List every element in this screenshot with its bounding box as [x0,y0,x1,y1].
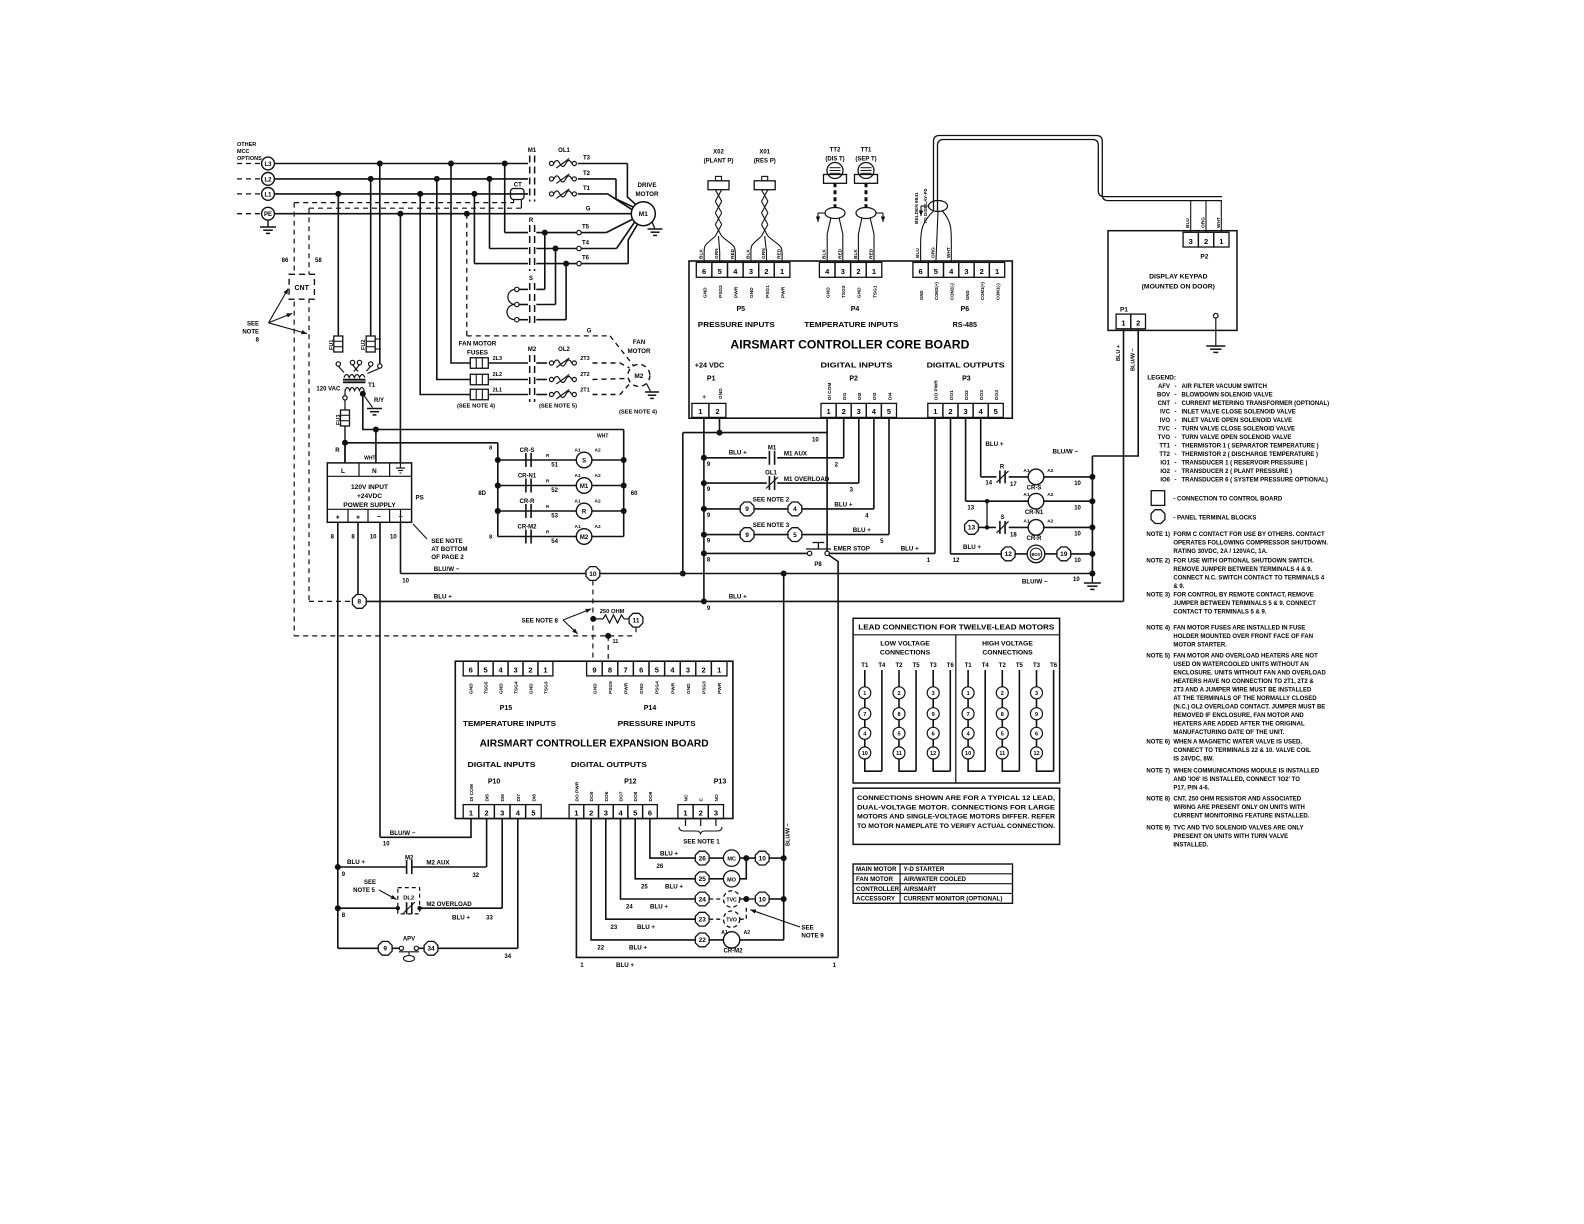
svg-text:25: 25 [699,876,707,883]
svg-text:NOTE 5: NOTE 5 [353,888,375,894]
svg-text:RATING 30VDC, 2A / 120VAC, 1A.: RATING 30VDC, 2A / 120VAC, 1A. [1173,549,1268,555]
svg-text:10: 10 [383,842,390,848]
svg-text:T1: T1 [965,663,973,669]
wire L2 bus [274,178,528,180]
svg-text:R: R [335,448,340,454]
svg-text:DO3: DO3 [979,390,985,400]
svg-text:G: G [586,206,591,212]
svg-text:RED: RED [730,248,736,259]
svg-text:5: 5 [531,808,535,817]
rung OL1 M1 OVERLOAD [701,480,707,486]
rung emer stop [701,550,707,556]
keypad wires from cable [1190,201,1192,233]
fuse FU3 [344,400,346,410]
svg-text:TT1: TT1 [1159,444,1170,450]
wire 11 dashed to P14-8 [635,627,637,636]
svg-text:OTHER: OTHER [237,142,256,148]
svg-text:10: 10 [390,535,397,541]
connector P2 (keypad) [1183,232,1198,247]
svg-text:T4: T4 [582,241,590,247]
svg-text:A2: A2 [1047,492,1053,498]
svg-text:PSG5: PSG5 [608,681,614,694]
svg-text:M1 OVERLOAD: M1 OVERLOAD [784,476,830,483]
svg-text:T6: T6 [947,663,955,669]
fuse FU2 [370,179,372,336]
svg-text:FAN MOTOR FUSES ARE INSTALLED: FAN MOTOR FUSES ARE INSTALLED IN FUSE [1173,626,1305,632]
svg-text:P6: P6 [961,306,970,313]
svg-text:10: 10 [1073,577,1080,583]
svg-text:GND: GND [639,683,645,694]
svg-text:BLU +: BLU + [616,962,634,969]
svg-text:M1: M1 [639,211,648,218]
svg-text:A1: A1 [575,524,581,530]
svg-text:1: 1 [574,808,578,817]
wire L3 to transformer [379,164,381,364]
wire T4 [490,248,529,250]
svg-text:2: 2 [715,407,719,416]
svg-text:THERMISTOR 2 ( DISCHARGE TEMPE: THERMISTOR 2 ( DISCHARGE TEMPERATURE ) [1182,452,1318,458]
svg-text:OL1: OL1 [765,471,777,477]
cable shield ellipse [929,201,948,212]
svg-text:Y-D STARTER: Y-D STARTER [904,866,945,873]
svg-text:DI7: DI7 [516,794,522,802]
wire 58 (CT to CNT) [309,207,521,209]
svg-text:CONNECTIONS: CONNECTIONS [880,650,931,657]
svg-text:DO7: DO7 [619,791,625,801]
svg-text:(SEE NOTE 5): (SEE NOTE 5) [539,404,577,410]
svg-text:CONNECTIONS: CONNECTIONS [982,650,1033,657]
wire BLU/W- rail [400,509,402,522]
rung M2 AUX [335,864,341,870]
svg-text:AIRSMART CONTROLLER CORE BO: AIRSMART CONTROLLER CORE BOARD [730,338,969,352]
svg-text:GRN: GRN [714,248,720,259]
svg-text:5: 5 [897,732,900,738]
svg-text:T3: T3 [1033,663,1041,669]
svg-text:2L2: 2L2 [493,372,502,378]
svg-text:5: 5 [793,532,797,539]
svg-text:3: 3 [857,407,861,416]
svg-text:WHEN A MAGNETIC WATER VALVE IS: WHEN A MAGNETIC WATER VALVE IS USED, [1173,740,1302,746]
svg-text:CURRENT METERING TRANSFORMER (: CURRENT METERING TRANSFORMER (OPTIONAL) [1182,401,1330,407]
svg-text:FAN MOTOR AND OVERLOAD HEATERS: FAN MOTOR AND OVERLOAD HEATERS ARE NOT [1173,654,1318,660]
svg-text:1: 1 [872,267,876,276]
svg-text:DIGITAL INPUTS: DIGITAL INPUTS [821,361,893,370]
svg-text:(N.C.) OL2 OVERLOAD CONTACT. J: (N.C.) OL2 OVERLOAD CONTACT. JUMPER MUST… [1173,705,1325,711]
svg-text:REMOVED IF ENCLOSURE, FAN MOTO: REMOVED IF ENCLOSURE, FAN MOTOR AND [1173,713,1304,719]
svg-text:GND: GND [826,287,832,298]
junction dots on phase lines [377,161,383,167]
svg-text:BLU +: BLU + [963,544,981,551]
svg-text:23: 23 [611,925,618,931]
svg-text:GND: GND [857,287,863,298]
svg-text:MOTOR STARTER.: MOTOR STARTER. [1173,643,1227,649]
taps to R contactor [504,164,506,233]
svg-text:1: 1 [717,666,721,675]
svg-text:PSG1: PSG1 [765,285,771,298]
display keypad box [1108,231,1237,331]
svg-text:P5: P5 [737,306,746,313]
svg-text:WHT: WHT [946,247,952,258]
feeders to fan fuses [451,164,470,364]
svg-text:(SEE NOTE 4): (SEE NOTE 4) [619,410,657,416]
svg-text:GRN: GRN [761,248,767,259]
svg-text:DI4: DI4 [887,392,893,400]
svg-text:A2: A2 [1047,518,1053,524]
svg-text:10: 10 [1074,481,1081,487]
svg-text:MCC: MCC [237,149,250,155]
svg-text:ORG: ORG [930,247,936,258]
svg-text:HEATERS HAVE NO CONNECTION TO: HEATERS HAVE NO CONNECTION TO 2T1, 2T2 & [1173,679,1314,685]
terminal block 8 [309,600,352,602]
wire R rail to relay bus [345,442,498,444]
svg-text:34: 34 [504,954,511,960]
svg-text:+: + [702,395,706,401]
row 22: CR-M2 coil [591,819,695,940]
svg-text:TVC: TVC [726,898,737,904]
svg-text:LOW VOLTAGE: LOW VOLTAGE [880,641,930,648]
svg-text:BLU: BLU [1185,218,1191,228]
svg-text:2: 2 [856,267,860,276]
svg-text:TT2: TT2 [1159,452,1170,458]
svg-text:2: 2 [764,267,768,276]
svg-text:SEE NOTE 2: SEE NOTE 2 [753,497,790,504]
svg-text:NOTE 4): NOTE 4) [1146,626,1170,632]
svg-text:2: 2 [1204,237,1208,246]
svg-text:RED: RED [837,248,843,259]
svg-text:1: 1 [967,691,970,697]
svg-text:T2: T2 [895,663,903,669]
svg-text:L1: L1 [264,192,272,198]
svg-text:2T1: 2T1 [580,388,589,394]
svg-text:FAN MOTOR: FAN MOTOR [459,341,497,348]
svg-text:ENCLOSURE. UNITS WITHOUT FAN A: ENCLOSURE. UNITS WITHOUT FAN AND OVERLOA… [1173,671,1326,677]
svg-text:DO5: DO5 [589,791,595,801]
svg-text:2: 2 [1001,691,1004,697]
svg-text:(SEE NOTE 4): (SEE NOTE 4) [457,404,495,410]
svg-text:3: 3 [513,666,517,675]
svg-text:P13: P13 [714,779,727,786]
svg-text:1: 1 [698,407,702,416]
wire BLU+ rail [366,600,1123,602]
svg-text:5: 5 [994,407,998,416]
transformer CNT (optional) [289,274,314,299]
svg-text:CNT: CNT [295,285,310,292]
svg-text:INSTALLED.: INSTALLED. [1173,843,1208,849]
svg-text:2: 2 [897,691,900,697]
svg-text:-: - [1175,469,1177,475]
svg-text:NOTE 5): NOTE 5) [1146,654,1170,660]
svg-text:1: 1 [933,407,937,416]
svg-text:FORM C CONTACT FOR USE BY OTHE: FORM C CONTACT FOR USE BY OTHERS. CONTAC… [1173,532,1325,538]
svg-text:HOLDER MOUNTED OVER FRONT FACE: HOLDER MOUNTED OVER FRONT FACE OF FAN [1173,634,1313,640]
wire T5 [505,232,528,234]
svg-text:FAN MOTOR: FAN MOTOR [856,876,894,883]
legend symbol: panel terminal blocks [1151,510,1165,524]
svg-text:BLU/W −: BLU/W − [1052,448,1078,455]
svg-text:5: 5 [934,267,938,276]
svg-text:120V INPUT: 120V INPUT [351,484,388,491]
row 23: TVO [606,819,695,920]
svg-text:TSG1: TSG1 [872,285,878,298]
wire 58 vertical [308,208,310,601]
svg-text:M2 OVERLOAD: M2 OVERLOAD [426,901,472,908]
svg-text:CR-R: CR-R [520,499,536,505]
svg-text:7: 7 [863,712,866,718]
svg-text:BLK: BLK [745,249,751,259]
ground at PE [267,220,269,227]
svg-text:53: 53 [551,514,558,520]
svg-text:P2: P2 [1200,254,1208,261]
svg-text:3: 3 [686,666,690,675]
svg-text:2: 2 [485,808,489,817]
node L1 [237,193,262,195]
svg-text:EMER STOP: EMER STOP [834,545,870,552]
svg-text:3: 3 [604,808,608,817]
svg-text:T3: T3 [583,156,591,162]
svg-text:PWR: PWR [734,286,740,298]
svg-text:2: 2 [1136,319,1140,328]
svg-text:1: 1 [863,691,866,697]
svg-text:BOV: BOV [1157,393,1170,399]
svg-text:R: R [529,218,534,224]
expansion board outline [455,661,733,818]
svg-text:P8: P8 [814,562,822,568]
svg-text:CR-S: CR-S [1027,486,1042,492]
svg-text:P10: P10 [488,779,501,786]
svg-text:5: 5 [484,666,488,675]
svg-text:USED ON WATERCOOLED UNITS WITH: USED ON WATERCOOLED UNITS WITHOUT AN [1173,662,1308,668]
svg-text:1: 1 [826,407,830,416]
svg-text:PSG2: PSG2 [718,285,724,298]
wire PS plus down [337,522,339,948]
svg-text:P3: P3 [962,376,971,383]
svg-text:BLU +: BLU + [1116,345,1122,361]
svg-text:-: - [1175,452,1177,458]
svg-text:DO2: DO2 [964,390,970,400]
svg-text:10: 10 [812,438,819,444]
svg-text:A1: A1 [1023,492,1029,498]
node L2 [237,178,262,180]
svg-text:22: 22 [597,946,604,952]
svg-text:HIGH VOLTAGE: HIGH VOLTAGE [982,641,1033,648]
svg-text:CR-N1: CR-N1 [518,473,537,479]
svg-text:T2: T2 [999,663,1007,669]
svg-text:2: 2 [589,808,593,817]
svg-text:R: R [582,509,587,515]
svg-text:THERMISTOR 1 ( SEPARATOR TEMPE: THERMISTOR 1 ( SEPARATOR TEMPERATURE ) [1182,444,1319,450]
svg-text:CONTROLLER: CONTROLLER [856,886,899,893]
svg-text:TEMPERATURE INPUTS: TEMPERATURE INPUTS [463,719,556,728]
svg-text:GND: GND [702,287,708,298]
svg-text:P14: P14 [644,705,657,712]
node PE [237,213,262,215]
svg-text:(RES P): (RES P) [754,159,776,165]
svg-text:BLU +: BLU + [985,441,1003,448]
svg-text:GND: GND [718,388,724,399]
svg-text:A2: A2 [595,473,601,479]
rung M1 AUX [701,455,707,461]
bottom wire 1 [576,819,838,958]
svg-text:6: 6 [932,732,935,738]
svg-text:+24 VDC: +24 VDC [695,361,724,370]
svg-text:GND: GND [686,683,692,694]
svg-text:WHT: WHT [597,434,608,440]
svg-text:LEAD CONNECTION FOR TWELVE-LEA: LEAD CONNECTION FOR TWELVE-LEAD MOTORS [858,625,1054,632]
svg-text:12: 12 [953,558,960,564]
svg-text:BLU +: BLU + [834,501,852,508]
svg-text:DI8: DI8 [531,794,537,802]
svg-text:TVC: TVC [1158,427,1171,433]
svg-text:BLU/W −: BLU/W − [786,823,792,846]
svg-text:26: 26 [699,855,707,862]
svg-text:2: 2 [702,666,706,675]
svg-text:51: 51 [551,463,558,469]
svg-text:BLU +: BLU + [853,527,871,534]
svg-text:IO1: IO1 [1160,461,1170,467]
rung CR-S (14-17 R contact) [980,417,982,477]
svg-text:13: 13 [967,506,974,512]
svg-text:5: 5 [887,407,891,416]
svg-text:SEE NOTE 1: SEE NOTE 1 [683,839,720,846]
svg-text:BLU +: BLU + [650,904,668,911]
connector P4 [819,262,835,277]
svg-text:AT THE TERMINALS OF THE NORMAL: AT THE TERMINALS OF THE NORMALLY CLOSED [1173,696,1317,702]
svg-text:GND: GND [499,683,505,694]
svg-text:COM1(-): COM1(-) [995,283,1000,300]
core board outline [689,261,1012,418]
svg-text:SEE: SEE [801,925,813,932]
svg-text:10: 10 [1074,558,1081,564]
svg-text:T5: T5 [913,663,921,669]
svg-text:BLU/W −: BLU/W − [1022,578,1048,585]
fuse 2L3 [470,358,488,369]
svg-text:FUSES: FUSES [467,350,488,357]
wire L3 bus [274,163,528,165]
wire 10 dashed to P14-9 [592,581,594,662]
wire P1-2 / wire 10 [719,417,721,432]
svg-text:M2: M2 [580,535,589,541]
rung BOV (12-19) [950,417,952,554]
svg-text:BELDEN 9841: BELDEN 9841 [914,192,920,224]
svg-text:11: 11 [999,751,1005,757]
svg-text:3: 3 [932,691,935,697]
svg-text:2L1: 2L1 [493,388,502,394]
svg-text:DO PWR: DO PWR [934,380,940,400]
svg-text:A2: A2 [1047,468,1053,474]
svg-text:2: 2 [948,407,952,416]
svg-text:1: 1 [1121,319,1125,328]
svg-text:120 VAC: 120 VAC [316,387,341,393]
svg-text:DIGITAL INPUTS: DIGITAL INPUTS [468,760,536,769]
svg-text:P4: P4 [851,306,860,313]
svg-text:5: 5 [655,666,659,675]
svg-text:BLU +: BLU + [729,450,747,457]
svg-text:NOTE 1): NOTE 1) [1146,532,1170,538]
svg-text:60: 60 [631,491,638,497]
svg-text:MOTORS AND SINGLE-VOLTAGE MOTO: MOTORS AND SINGLE-VOLTAGE MOTORS DIFFER.… [857,814,1055,821]
svg-text:BLU +: BLU + [665,883,683,890]
svg-text:TSG5: TSG5 [484,681,490,694]
svg-text:BLU +: BLU + [901,545,919,552]
P13 stubs + see note 1 [685,819,687,827]
svg-text:PS: PS [416,495,424,502]
svg-text:INLET VALVE OPEN SOLENOID VALV: INLET VALVE OPEN SOLENOID VALVE [1182,418,1293,424]
wire 86 vertical [293,203,295,636]
DO return bus from BLU/W- rail [783,574,785,940]
svg-text:BLU/W −: BLU/W − [390,830,416,837]
svg-text:BLU +: BLU + [637,924,655,931]
svg-text:(DIS T): (DIS T) [825,157,844,163]
row 25: MO [635,819,695,879]
svg-text:MOTOR: MOTOR [636,191,659,198]
svg-text:2T2: 2T2 [580,372,589,378]
svg-text:+24VDC: +24VDC [357,493,382,500]
svg-text:A1: A1 [721,930,728,936]
svg-text:18: 18 [1010,532,1017,538]
svg-text:P12: P12 [624,779,637,786]
svg-text:L3: L3 [264,162,272,168]
svg-text:& 9.: & 9. [1173,584,1184,590]
svg-text:52: 52 [551,488,558,494]
emer stop to DO PWR [829,552,935,554]
svg-text:10: 10 [965,751,971,757]
svg-text:CONNECT N.C. SWITCH CONTACT TO: CONNECT N.C. SWITCH CONTACT TO TERMINALS… [1173,576,1324,582]
svg-text:(SEP T): (SEP T) [855,157,876,163]
svg-text:CNT: CNT [1158,401,1171,407]
wire L1 bus [274,193,528,195]
svg-text:CR-M2: CR-M2 [724,949,744,955]
svg-text:IO2: IO2 [1160,469,1170,475]
svg-text:11: 11 [633,618,640,625]
svg-text:DO1: DO1 [949,390,955,400]
svg-text:T6: T6 [582,256,590,262]
svg-text:2: 2 [528,666,532,675]
svg-text:T1: T1 [861,663,869,669]
svg-text:33: 33 [486,916,493,922]
svg-text:58: 58 [315,258,322,264]
svg-text:3: 3 [841,267,845,276]
svg-text:AIRSMART CONTROLLER EXPANSION: AIRSMART CONTROLLER EXPANSION BOARD [480,738,709,750]
svg-text:A2: A2 [595,524,601,530]
svg-text:PRESSURE INPUTS: PRESSURE INPUTS [698,320,775,329]
svg-text:CONTACT TO TERMINALS 5 & 9.: CONTACT TO TERMINALS 5 & 9. [1173,610,1266,616]
svg-text:BLU +: BLU + [660,851,678,858]
svg-text:PWR: PWR [670,682,676,694]
svg-text:NOTE 2): NOTE 2) [1146,559,1170,565]
svg-text:FAN: FAN [633,339,646,346]
svg-text:TRANSDUCER 6 ( SYSTEM PRESSURE: TRANSDUCER 6 ( SYSTEM PRESSURE OPTIONAL) [1182,478,1328,484]
svg-text:BLU +: BLU + [347,859,365,866]
svg-text:10: 10 [370,535,377,541]
svg-text:A1: A1 [1023,468,1029,474]
svg-text:GND: GND [749,287,755,298]
wire PE to PS ground [399,214,401,463]
svg-text:REMOVE JUMPER BETWEEN TERMINAL: REMOVE JUMPER BETWEEN TERMINALS 4 & 9. [1173,567,1312,573]
svg-text:GND: GND [592,683,598,694]
rung see note 3 (9-5) [701,532,707,538]
svg-text:PSG3: PSG3 [702,681,708,694]
DO return bus [1091,456,1093,574]
svg-text:X02: X02 [713,150,724,156]
svg-text:10: 10 [589,571,597,578]
svg-text:7: 7 [967,712,970,718]
svg-text:3: 3 [964,267,968,276]
svg-text:SEE: SEE [247,322,259,328]
svg-text:MO: MO [727,877,737,883]
svg-text:CONNECT TO TERMINALS 22 & 10.: CONNECT TO TERMINALS 22 & 10. VALVE COIL [1173,748,1311,754]
svg-text:TVO: TVO [1158,435,1171,441]
svg-text:1: 1 [683,808,687,817]
